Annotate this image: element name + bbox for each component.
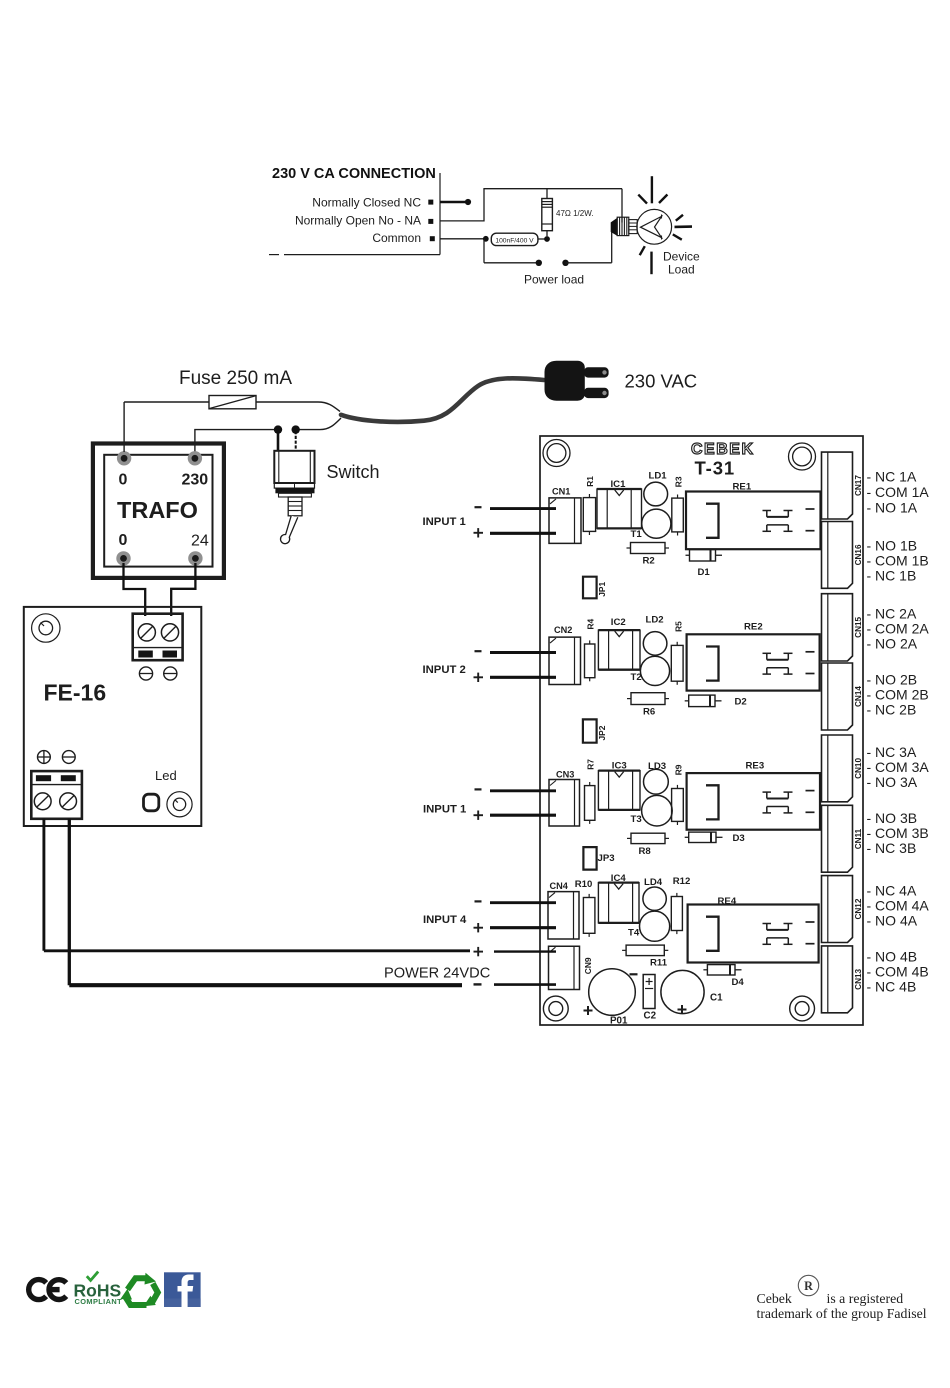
svg-text:CN11: CN11	[854, 828, 863, 849]
wire trafo secondary left	[124, 563, 146, 616]
svg-text:RE2: RE2	[744, 621, 763, 632]
input wire minus ch3	[490, 789, 556, 792]
lamp ray NW	[638, 195, 647, 204]
LED LD2	[643, 632, 667, 656]
wire bottom loop riser to bulb	[611, 232, 613, 263]
FE-16 input terminal block	[133, 614, 183, 661]
svg-text:- NO 2B: - NO 2B	[867, 672, 918, 688]
switch pin stem right	[295, 431, 297, 451]
relay RE2 contact bottom	[767, 667, 789, 669]
wire top rail down to bulb	[621, 189, 623, 223]
relay RE4 pin dash top	[806, 921, 815, 923]
registered trademark symbol	[798, 1275, 818, 1295]
T-31 board outline	[540, 436, 863, 1025]
svg-text:230 V CA CONNECTION: 230 V CA CONNECTION	[272, 166, 436, 182]
relay RE1 contact bottom	[767, 524, 789, 526]
capacitor C2	[643, 975, 655, 1009]
svg-text:- COM 1A: - COM 1A	[867, 484, 930, 500]
svg-text:trademark of the group Fadisel: trademark of the group Fadisel	[757, 1306, 927, 1321]
resistor R5	[671, 645, 683, 681]
svg-text:- NO 4B: - NO 4B	[867, 949, 918, 965]
relay RE2 coil bracket	[706, 647, 719, 681]
svg-text:230: 230	[182, 472, 209, 489]
LED LD4	[643, 887, 666, 910]
svg-text:Fuse 250 mA: Fuse 250 mA	[179, 368, 292, 389]
node power-load dot right	[562, 260, 568, 266]
relay RE4 coil bracket	[706, 917, 719, 951]
lamp ray E	[675, 225, 693, 228]
input wire plus ch4	[490, 926, 556, 929]
svg-text:Normally Closed NC: Normally Closed NC	[312, 195, 421, 209]
mounting hole top-right	[789, 443, 816, 470]
switch threaded bushing	[288, 497, 302, 516]
svg-text:RE4: RE4	[718, 896, 737, 907]
svg-text:R1: R1	[585, 476, 595, 487]
terminal block CN13	[822, 946, 853, 1013]
svg-text:D3: D3	[733, 833, 745, 844]
svg-text:CN4: CN4	[550, 881, 569, 891]
LED LD3	[644, 769, 669, 794]
svg-text:R11: R11	[650, 958, 668, 969]
svg-text:230 VAC: 230 VAC	[625, 371, 698, 392]
power plus sign	[474, 951, 484, 953]
svg-text:- NC 1B: - NC 1B	[867, 568, 917, 584]
node Common junction dot	[483, 236, 489, 242]
wire NO riser up	[483, 189, 485, 222]
lamp ray ENE	[676, 215, 683, 221]
relay RE3 pin dash top	[806, 790, 815, 792]
wire FE-16 out right	[68, 819, 71, 985]
switch nut band	[275, 488, 314, 493]
svg-text:R7: R7	[585, 759, 595, 770]
connector CN1 (ch1)	[549, 498, 581, 544]
resistor R6	[631, 693, 665, 705]
relay RE3	[687, 773, 820, 830]
svg-text:- NO 4A: - NO 4A	[867, 913, 918, 929]
relay RE2	[687, 634, 820, 690]
svg-text:R8: R8	[639, 846, 652, 857]
resistor R4	[585, 644, 595, 678]
input 2 plus sign	[474, 676, 484, 678]
svg-text:- COM 1B: - COM 1B	[867, 553, 929, 569]
svg-text:IC4: IC4	[611, 873, 627, 884]
terminal block CN11	[822, 805, 853, 872]
svg-text:Power load: Power load	[524, 273, 584, 287]
label P01 plus	[584, 1010, 593, 1012]
svg-text:CN10: CN10	[854, 758, 863, 779]
terminal screw right	[161, 624, 178, 641]
svg-text:- NC 4A: - NC 4A	[867, 883, 917, 899]
terminal block CN15	[822, 594, 853, 661]
LED LD1	[644, 482, 668, 506]
wire 24V plus run	[44, 949, 470, 952]
svg-text:Normally Open No - NA: Normally Open No - NA	[295, 214, 421, 228]
svg-text:- NO 1A: - NO 1A	[867, 500, 918, 516]
svg-text:- COM 2A: - COM 2A	[867, 621, 930, 637]
FE-16 screw bottom-right	[167, 792, 192, 817]
wire fuse to cord	[256, 402, 340, 412]
adjust screw small right	[164, 667, 177, 680]
lamp ray SW	[640, 246, 645, 255]
capacitor 100nF/400V	[491, 233, 538, 245]
connector CN2 (ch2)	[549, 637, 581, 684]
svg-text:D1: D1	[698, 567, 711, 578]
diode D3	[689, 832, 716, 842]
relay RE1 pin dash top	[806, 508, 815, 510]
svg-text:- COM 3A: - COM 3A	[867, 759, 930, 775]
svg-text:is a registered: is a registered	[827, 1291, 904, 1306]
wire bottom loop left	[484, 262, 539, 264]
adjust screw small left	[139, 667, 152, 680]
node power-load dot left	[536, 260, 542, 266]
jumper JP3	[583, 847, 596, 870]
resistor R2	[631, 543, 666, 554]
lamp ray bottom	[650, 252, 652, 275]
wire fuse riser to trafo	[123, 402, 125, 452]
svg-text:- COM 4B: - COM 4B	[867, 964, 929, 980]
wire top rail	[483, 188, 622, 190]
svg-text:Common: Common	[372, 231, 421, 245]
svg-text:Switch: Switch	[327, 462, 380, 482]
output screw left	[34, 793, 51, 810]
svg-text:RE3: RE3	[746, 761, 765, 772]
input 4 minus sign	[475, 900, 482, 902]
input wire plus ch1	[490, 532, 556, 535]
terminal square NC	[428, 200, 433, 205]
wire Common	[440, 238, 485, 240]
svg-text:R12: R12	[673, 876, 691, 887]
wire bottom loop left riser	[483, 239, 485, 263]
svg-text:LD2: LD2	[646, 615, 664, 626]
frame line bottom	[284, 254, 440, 256]
polarity plus symbol	[38, 751, 51, 764]
svg-text:- COM 4A: - COM 4A	[867, 898, 930, 914]
svg-text:CN1: CN1	[552, 486, 570, 496]
svg-text:INPUT 1: INPUT 1	[423, 516, 466, 528]
svg-text:- NO 3B: - NO 3B	[867, 810, 918, 826]
relay RE3 contact top	[763, 791, 772, 793]
trafo terminal bottom-left	[116, 551, 130, 565]
mounting hole bottom-left	[543, 996, 568, 1021]
svg-text:T4: T4	[628, 927, 640, 938]
svg-text:INPUT 2: INPUT 2	[423, 664, 466, 676]
input 1 plus sign	[474, 532, 484, 534]
relay RE4	[688, 905, 819, 963]
lamp ray ESE	[673, 234, 682, 239]
svg-text:POWER 24VDC: POWER 24VDC	[384, 966, 490, 982]
svg-text:Led: Led	[155, 768, 177, 783]
CE mark C	[29, 1280, 46, 1300]
svg-text:CN2: CN2	[554, 625, 572, 635]
svg-text:CN17: CN17	[854, 475, 863, 496]
wire trafo secondary right	[171, 563, 195, 616]
terminal screw left	[138, 624, 155, 641]
diode D1	[690, 550, 716, 562]
svg-text:T1: T1	[631, 529, 643, 540]
mounting hole bottom-right	[790, 996, 815, 1021]
svg-text:JP3: JP3	[598, 853, 615, 864]
CE mark E	[49, 1280, 66, 1300]
plug prong top	[584, 367, 609, 377]
output screw right	[60, 793, 77, 810]
input wire minus ch4	[490, 901, 556, 904]
svg-text:R2: R2	[643, 556, 655, 567]
fuse F1	[209, 396, 256, 409]
lamp neck rings	[629, 220, 637, 234]
transistor T2	[640, 656, 669, 685]
svg-text:24: 24	[191, 533, 209, 550]
mounting hole top-left	[543, 440, 570, 467]
relay RE4 contact top	[763, 923, 772, 925]
terminal square Common	[430, 236, 435, 241]
polarity minus symbol	[62, 751, 75, 764]
switch pin dot left	[274, 425, 282, 433]
terminal block CN10	[822, 735, 853, 802]
svg-text:INPUT 4: INPUT 4	[423, 914, 467, 926]
svg-text:C1: C1	[710, 993, 723, 1004]
svg-text:D4: D4	[732, 977, 745, 988]
node NC end dot	[465, 199, 471, 205]
wire trafo-0 to fuse	[124, 401, 209, 403]
jumper JP1	[583, 577, 597, 599]
terminal block CN16	[822, 522, 853, 589]
wire trafo-230 to switch	[195, 430, 278, 453]
power cord	[341, 378, 544, 422]
svg-text:- NO 2A: - NO 2A	[867, 636, 918, 652]
node resistor bottom junction	[544, 236, 550, 242]
relay RE1	[686, 492, 821, 550]
relay RE2 pin dash top	[806, 651, 815, 653]
relay RE3 contact bottom	[767, 806, 789, 808]
svg-text:LD4: LD4	[644, 877, 663, 888]
relay RE2 pin dash bottom	[806, 673, 815, 675]
relay RE4 contact bottom	[767, 937, 789, 939]
input 3 minus sign	[475, 788, 482, 790]
transistor T4	[640, 911, 670, 941]
RoHS checkmark	[87, 1272, 98, 1281]
resistor R12	[671, 897, 682, 931]
svg-text:CN14: CN14	[854, 686, 863, 707]
svg-text:JP2: JP2	[597, 725, 607, 740]
wire switch to cord	[296, 418, 341, 430]
trafo terminal top-right	[188, 451, 202, 465]
svg-text:CN13: CN13	[854, 968, 863, 989]
svg-text:COMPLIANT: COMPLIANT	[75, 1297, 123, 1306]
switch pin stem left	[277, 431, 280, 451]
FE-16 box	[24, 607, 202, 826]
resistor R3	[672, 498, 684, 532]
svg-text:T3: T3	[631, 814, 642, 825]
wire bottom loop right	[566, 262, 612, 264]
svg-text:R9: R9	[673, 764, 683, 775]
svg-text:CN15: CN15	[854, 616, 863, 637]
wire NO to riser	[440, 220, 484, 222]
svg-text:- COM 3B: - COM 3B	[867, 825, 929, 841]
resistor R9	[672, 789, 684, 822]
terminal square NO	[428, 219, 433, 224]
switch S1 body	[274, 451, 314, 483]
svg-text:47Ω 1/2W.: 47Ω 1/2W.	[556, 209, 594, 218]
relay RE3 coil bracket	[706, 785, 719, 819]
label P01 minus	[630, 973, 638, 975]
svg-text:C2: C2	[644, 1011, 657, 1022]
svg-text:FE-16: FE-16	[44, 680, 107, 706]
input wire plus ch3	[490, 814, 556, 817]
wire NC stub	[440, 201, 468, 204]
facebook icon	[164, 1272, 201, 1307]
svg-text:P01: P01	[610, 1016, 628, 1027]
resistor R7	[585, 786, 595, 821]
svg-text:T2: T2	[631, 672, 642, 683]
wire 24V minus run	[69, 983, 462, 987]
connector CN4 (ch4)	[548, 892, 579, 939]
svg-text:RE1: RE1	[733, 482, 752, 493]
svg-text:- NC 3B: - NC 3B	[867, 840, 917, 856]
mains plug body	[545, 361, 584, 400]
svg-text:- COM 2B: - COM 2B	[867, 687, 929, 703]
svg-text:0: 0	[119, 532, 128, 549]
svg-text:CN12: CN12	[854, 898, 863, 919]
svg-text:LD3: LD3	[648, 761, 666, 772]
terminal block CN17	[822, 452, 853, 519]
connector CN9	[549, 946, 580, 989]
lamp ray NE	[659, 195, 667, 204]
svg-text:- NC 4B: - NC 4B	[867, 979, 917, 995]
resistor R11	[626, 945, 664, 956]
svg-text:CN9: CN9	[583, 957, 593, 974]
frame line vertical	[439, 173, 441, 255]
input 3 plus sign	[474, 814, 484, 816]
op-amp IC3	[598, 771, 640, 810]
lamp threaded base	[617, 217, 629, 235]
diode D2	[689, 695, 715, 707]
svg-text:- NC 3A: - NC 3A	[867, 744, 917, 760]
capacitor P01	[589, 969, 636, 1016]
svg-text:- NO 1B: - NO 1B	[867, 538, 918, 554]
svg-text:- NC 1A: - NC 1A	[867, 469, 917, 485]
svg-text:T-31: T-31	[695, 458, 736, 479]
lamp glass globe	[637, 209, 672, 244]
connector CN3 (ch3)	[549, 780, 580, 827]
wire cap to resistor	[538, 238, 547, 240]
trafo terminal bottom-right	[188, 551, 202, 565]
terminal block CN14	[822, 663, 853, 730]
switch lever	[280, 516, 297, 544]
svg-text:CEBEK: CEBEK	[691, 441, 755, 458]
svg-text:Cebek: Cebek	[757, 1291, 792, 1306]
label C1 plus	[678, 1009, 687, 1011]
lamp ray top	[651, 176, 653, 203]
switch pin dot right	[292, 425, 300, 433]
svg-text:R3: R3	[673, 476, 683, 487]
switch washer	[279, 493, 312, 497]
svg-text:R5: R5	[673, 621, 683, 632]
relay RE3 pin dash bottom	[806, 811, 815, 813]
transistor T3	[642, 795, 673, 826]
svg-text:R10: R10	[575, 879, 593, 890]
transformer TRAFO outline	[93, 444, 224, 578]
diode D4	[707, 965, 735, 975]
svg-text:- NC 2A: - NC 2A	[867, 606, 917, 622]
resistor R8	[631, 833, 665, 843]
terminal block CN12	[822, 876, 853, 943]
power wire plus stub	[494, 950, 556, 952]
op-amp IC2	[598, 630, 640, 670]
svg-text:JP1: JP1	[597, 582, 607, 597]
wire FE-16 out left	[42, 819, 45, 951]
lamp filament	[641, 216, 662, 237]
resistor 47 Ohm 1/2W	[546, 189, 548, 199]
recycle symbol	[128, 1278, 148, 1289]
svg-text:R: R	[804, 1279, 813, 1293]
frame dash bottom-left	[269, 254, 279, 256]
capacitor C1	[661, 970, 704, 1013]
transistor T1	[642, 509, 671, 538]
svg-text:LD1: LD1	[649, 471, 668, 482]
FE-16 screw top-left	[32, 614, 60, 642]
svg-text:IC3: IC3	[612, 761, 627, 772]
svg-text:IC2: IC2	[611, 617, 626, 628]
svg-text:IC1: IC1	[611, 479, 627, 490]
input wire minus ch2	[490, 651, 556, 654]
input wire minus ch1	[490, 507, 556, 510]
terminal opening bars	[138, 651, 153, 658]
input 2 minus sign	[475, 650, 482, 652]
op-amp IC4	[598, 883, 639, 923]
svg-text:100nF/400 V: 100nF/400 V	[495, 237, 534, 244]
input 4 plus sign	[474, 927, 484, 929]
resistor R1	[583, 498, 595, 532]
power wire minus stub	[494, 983, 556, 986]
svg-text:CN16: CN16	[854, 544, 863, 565]
svg-text:- NC 2B: - NC 2B	[867, 702, 917, 718]
trafo terminal 0-230 top-left	[117, 451, 131, 465]
jumper JP2	[583, 719, 597, 742]
svg-text:Load: Load	[668, 263, 695, 277]
svg-text:CN3: CN3	[556, 769, 574, 779]
input 1 minus sign	[475, 506, 482, 508]
svg-text:0: 0	[119, 472, 128, 489]
svg-text:TRAFO: TRAFO	[117, 497, 198, 523]
relay RE1 contact top	[763, 510, 772, 512]
power minus sign	[474, 983, 482, 985]
svg-text:R6: R6	[643, 707, 655, 718]
plug prong bottom	[584, 388, 609, 398]
resistor R10	[583, 898, 595, 934]
svg-text:- NO 3A: - NO 3A	[867, 774, 918, 790]
svg-text:Device: Device	[663, 249, 700, 263]
input wire plus ch2	[490, 676, 556, 679]
relay RE4 pin dash bottom	[806, 943, 815, 945]
svg-text:D2: D2	[735, 696, 747, 707]
op-amp IC1	[597, 489, 642, 528]
lamp socket tip	[611, 218, 617, 235]
FE-16 output terminal block	[31, 771, 82, 819]
relay RE2 contact top	[763, 652, 772, 654]
relay RE1 pin dash bottom	[806, 530, 815, 532]
svg-text:R4: R4	[585, 618, 595, 629]
svg-text:INPUT 1: INPUT 1	[423, 804, 466, 816]
switch collar	[274, 483, 314, 488]
relay RE1 coil bracket	[706, 504, 719, 538]
LED indicator	[144, 794, 159, 811]
